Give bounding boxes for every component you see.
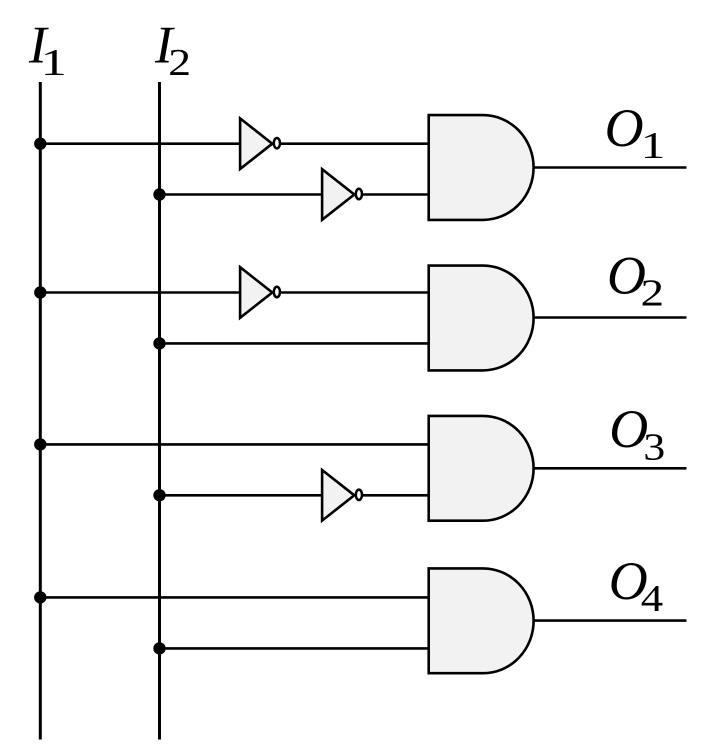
inverter U4 (row3 lower) bbox=[322, 470, 362, 521]
node junction I2 row3 bbox=[153, 489, 165, 501]
wire output O1 bbox=[534, 166, 687, 169]
node junction I2 row2 bbox=[153, 337, 165, 349]
svg-text:2: 2 bbox=[641, 272, 665, 314]
inverter U3 (row2 upper) bbox=[240, 267, 280, 318]
svg-text:O: O bbox=[605, 98, 644, 158]
node junction I1 row4 bbox=[34, 591, 46, 603]
node junction I1 row1 bbox=[34, 138, 46, 150]
wire row2 upper (I1 to inverter) bbox=[40, 291, 240, 294]
node junction I2 row4 bbox=[153, 642, 165, 654]
svg-text:1: 1 bbox=[41, 41, 67, 83]
wire row3 lower (I2 to inverter) bbox=[160, 494, 323, 497]
svg-text:1: 1 bbox=[641, 125, 666, 167]
svg-text:3: 3 bbox=[643, 426, 665, 468]
wire row3 lower (inverter to gate) bbox=[362, 494, 429, 497]
wire row2 upper (inverter to gate) bbox=[280, 291, 429, 294]
wire row1 upper (inverter to gate) bbox=[280, 142, 429, 145]
input rail I2 bbox=[158, 82, 161, 740]
wire row1 upper (I1 to inverter) bbox=[40, 142, 240, 145]
svg-text:2: 2 bbox=[168, 42, 191, 84]
wire row1 lower (inverter to gate) bbox=[362, 193, 429, 196]
node junction I1 row3 bbox=[34, 438, 46, 450]
wire row4 lower (I2 to gate) bbox=[160, 647, 429, 650]
wire row2 lower (I2 to gate) bbox=[160, 342, 429, 345]
AND gate G4 bbox=[429, 568, 534, 673]
AND gate G2 bbox=[429, 266, 534, 371]
inverter U2 (row1 lower) bbox=[322, 169, 362, 220]
wire output O2 bbox=[534, 316, 687, 319]
wire output O3 bbox=[534, 467, 687, 470]
svg-text:O: O bbox=[609, 399, 648, 459]
input rail I1 bbox=[39, 82, 42, 740]
wire row3 upper (I1 to gate) bbox=[40, 443, 428, 446]
svg-text:4: 4 bbox=[641, 577, 664, 619]
node junction I1 row2 bbox=[34, 286, 46, 298]
node junction I2 row1 bbox=[153, 188, 165, 200]
wire row1 lower (I2 to inverter) bbox=[160, 193, 323, 196]
AND gate G3 bbox=[429, 416, 534, 521]
wire row4 upper (I1 to gate) bbox=[40, 596, 428, 599]
AND gate G1 bbox=[429, 115, 534, 220]
wire output O4 bbox=[534, 619, 687, 622]
inverter U1 (row1 upper) bbox=[240, 118, 280, 169]
